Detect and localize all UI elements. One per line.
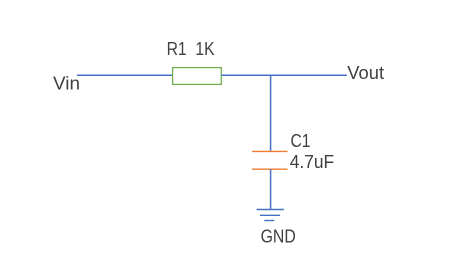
svg-text:R1 1K: R1 1K	[167, 38, 216, 59]
svg-text:GND: GND	[261, 226, 296, 247]
svg-text:4.7uF: 4.7uF	[290, 151, 335, 172]
wire	[270, 75, 272, 151]
wire	[270, 169, 272, 209]
capacitor C1	[252, 151, 288, 169]
resistor R1	[173, 68, 222, 85]
svg-text:Vout: Vout	[347, 62, 384, 83]
svg-text:C1: C1	[291, 130, 311, 151]
wire	[221, 74, 346, 76]
wire	[77, 74, 173, 76]
ground	[257, 210, 284, 221]
svg-text:Vin: Vin	[53, 72, 80, 93]
